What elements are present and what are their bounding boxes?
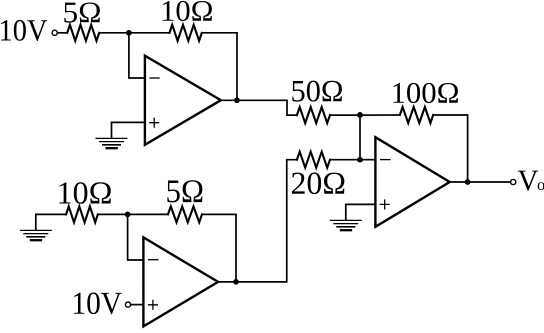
U3 plus label: [380, 200, 389, 209]
wire node A down to U1 inverting input: [129, 33, 145, 78]
wire node A to R2: [129, 32, 170, 34]
node U2 output junction dot: [233, 279, 239, 285]
wire R5 left lead and riser to U2 output: [236, 160, 297, 282]
wire U2 output: [218, 281, 236, 283]
wire R1 to node A: [99, 32, 129, 34]
wire U1 output to stage2: [221, 100, 297, 115]
label 10ohm (top): [163, 1, 212, 21]
resistor R2 10ohm feedback: [170, 25, 202, 41]
wire terminal to R1: [57, 32, 67, 34]
label 5ohm (bottom): [167, 180, 202, 202]
node A junction dot: [126, 30, 132, 36]
node D junction dot: [125, 212, 131, 218]
op-amp U3: [375, 137, 449, 227]
U2 minus label: [149, 259, 158, 261]
label 10ohm (bottom): [59, 182, 111, 204]
label 5ohm (top): [64, 2, 100, 22]
wire R7 to U2 output: [202, 214, 236, 282]
U2 plus label: [149, 300, 158, 309]
node C junction dot: [357, 157, 363, 163]
wire terminal to U2 noninverting input: [131, 304, 144, 306]
op-amp U1: [145, 56, 221, 145]
wire node D down to U2 inverting input: [128, 214, 144, 260]
resistor R1 5ohm: [67, 25, 99, 41]
label 50ohm: [292, 81, 342, 102]
terminal circle Vo: [511, 179, 516, 184]
wire R2 to op-amp U1 output: [202, 33, 237, 101]
label 20ohm: [292, 173, 344, 195]
label 100ohm: [393, 83, 458, 103]
wire node B to R4: [360, 114, 400, 116]
ground G2 (bottom-left source ground): [20, 230, 52, 240]
label 10V (bottom source): [74, 293, 122, 315]
ground G1: [96, 138, 128, 148]
node U1 output junction dot: [234, 97, 240, 103]
wire R4 to U3 output: [433, 115, 467, 182]
terminal circle (bottom 10V source): [125, 302, 130, 307]
terminal circle (top 10V source): [52, 30, 57, 35]
resistor R4 100ohm feedback: [400, 107, 433, 123]
U1 plus label: [150, 118, 159, 127]
wire U3 output to Vo terminal: [450, 181, 511, 183]
wire R5 to node C: [330, 159, 360, 161]
U3 minus label: [381, 159, 390, 161]
wire ground G2 to R6: [36, 214, 66, 229]
node B junction dot: [357, 112, 363, 118]
wire node C to U3 inverting input: [360, 159, 375, 161]
wire R6 to node D: [98, 213, 128, 215]
node U3 output junction dot: [465, 179, 471, 185]
resistor R6 10ohm (bottom): [66, 206, 98, 222]
label Vo: [518, 171, 538, 191]
wire R3 to node B: [330, 114, 360, 116]
op-amp U2: [143, 237, 218, 326]
label 10V (top source): [1, 20, 47, 41]
resistor R3 50ohm: [297, 107, 330, 123]
wire node D to R7: [128, 213, 168, 215]
wire U3 noninverting input to ground: [346, 204, 376, 219]
ground G3: [330, 220, 362, 230]
U1 minus label: [150, 77, 159, 79]
resistor R7 5ohm feedback (bottom): [168, 206, 202, 222]
wire node B down to node C: [359, 115, 361, 160]
wire U1 noninverting input to ground: [112, 122, 145, 137]
resistor R5 20ohm: [297, 152, 330, 168]
